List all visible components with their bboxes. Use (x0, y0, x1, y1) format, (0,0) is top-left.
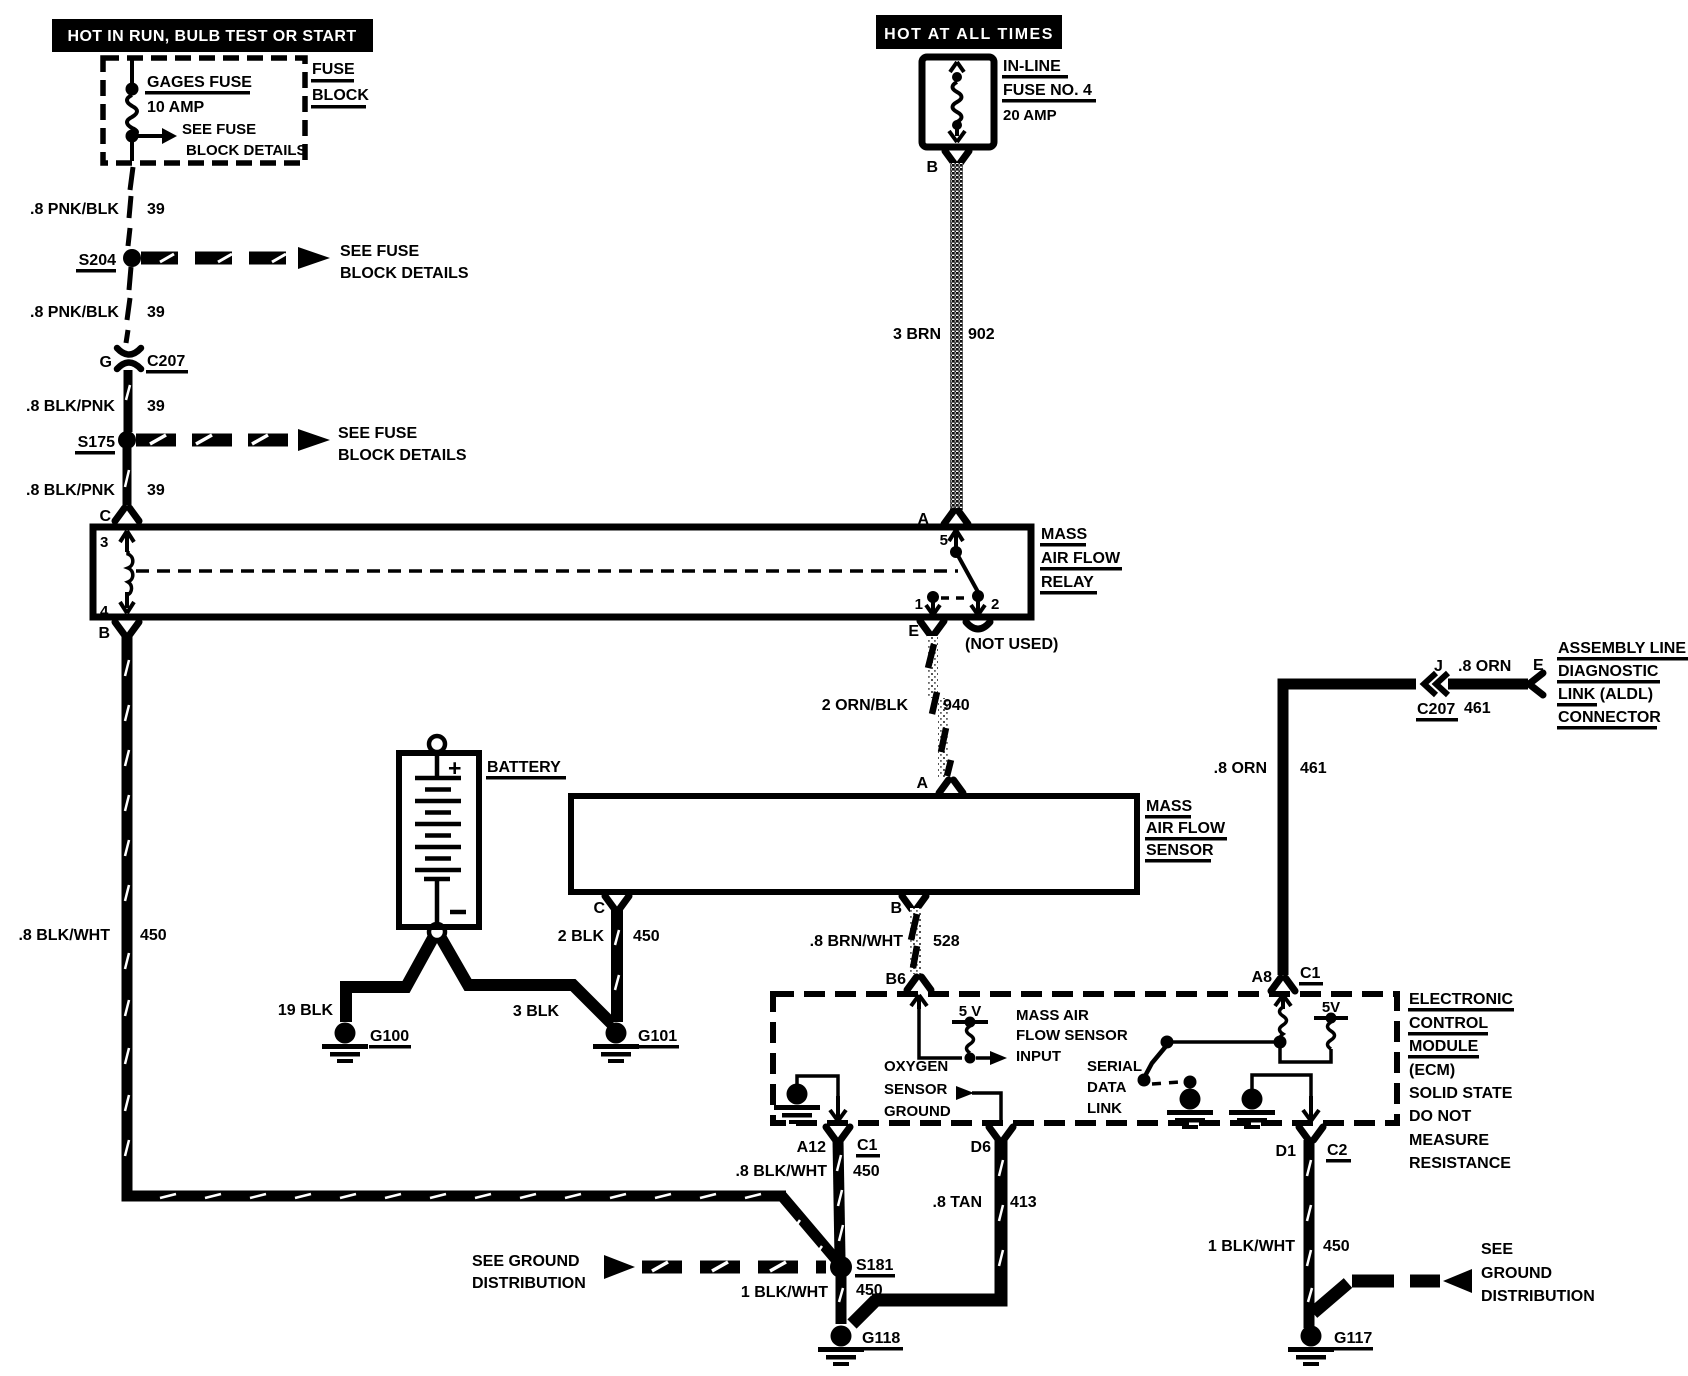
label MASS AIR FLOW SENSOR INPUT (1016, 1007, 1128, 1065)
svg-text:INPUT: INPUT (1016, 1048, 1061, 1065)
svg-text:19 BLK: 19 BLK (278, 1002, 334, 1019)
arrow MAF sensor input (976, 1056, 992, 1060)
svg-text:D1: D1 (1276, 1143, 1297, 1160)
svg-text:RESISTANCE: RESISTANCE (1409, 1155, 1511, 1172)
fuse block dashed box (103, 58, 305, 163)
svg-text:.8 TAN: .8 TAN (933, 1194, 982, 1211)
svg-text:C2: C2 (1327, 1142, 1348, 1159)
relay pin A (917, 511, 968, 528)
svg-text:LINK (ALDL): LINK (ALDL) (1558, 686, 1653, 703)
svg-text:A12: A12 (797, 1139, 826, 1156)
svg-text:BLOCK DETAILS: BLOCK DETAILS (340, 265, 469, 282)
svg-text:G118: G118 (862, 1330, 900, 1347)
svg-text:S204: S204 (79, 252, 116, 269)
resistor below A8 (1274, 995, 1292, 1049)
svg-text:39: 39 (147, 304, 165, 321)
svg-text:3 BLK: 3 BLK (513, 1003, 560, 1020)
wire fuse to S204 (128, 167, 133, 246)
svg-text:.8 BLK/WHT: .8 BLK/WHT (18, 927, 110, 944)
ECM dashed box (773, 994, 1397, 1123)
svg-text:FUSE: FUSE (312, 61, 355, 78)
svg-text:ASSEMBLY LINE: ASSEMBLY LINE (1558, 640, 1686, 657)
sensor pin B (890, 896, 926, 917)
svg-text:HOT AT ALL TIMES: HOT AT ALL TIMES (884, 26, 1054, 43)
svg-text:A: A (917, 511, 929, 528)
ground G100 (322, 1023, 411, 1064)
gages fuse F1 (126, 83, 139, 162)
svg-text:SEE GROUND: SEE GROUND (472, 1253, 580, 1270)
svg-text:BLOCK DETAILS: BLOCK DETAILS (186, 142, 307, 159)
label SERIAL DATA LINK (1087, 1058, 1142, 1117)
svg-text:1: 1 (915, 596, 923, 613)
svg-text:LINK: LINK (1087, 1100, 1122, 1117)
svg-text:20 AMP: 20 AMP (1003, 107, 1057, 124)
wire C207 to S175 (124, 370, 133, 432)
wire 1 BLK/WHT 450 from D1 to G117 (1208, 1140, 1350, 1328)
svg-text:GROUND: GROUND (1481, 1265, 1552, 1282)
svg-text:G101: G101 (638, 1028, 677, 1045)
arrow to see fuse block details (137, 121, 307, 159)
svg-text:DIAGNOSTIC: DIAGNOSTIC (1558, 663, 1659, 680)
svg-text:461: 461 (1464, 700, 1491, 717)
in-line fuse box (922, 57, 994, 147)
svg-text:A: A (916, 775, 928, 792)
svg-text:FUSE NO. 4: FUSE NO. 4 (1003, 82, 1092, 99)
svg-text:G100: G100 (370, 1028, 409, 1045)
svg-text:SEE FUSE: SEE FUSE (338, 425, 417, 442)
mass air flow sensor box (571, 796, 1137, 892)
sensor pin A (916, 775, 963, 793)
wire into fuse block (130, 60, 134, 85)
relay pin 3 (100, 531, 134, 552)
wire horizontal run to S181 (122, 1194, 838, 1262)
ground G118 (818, 1326, 903, 1367)
svg-text:.8 BLK/WHT: .8 BLK/WHT (735, 1163, 827, 1180)
wire .8 BRN/WHT 528 from sensor B to ECM B6 (810, 908, 960, 974)
svg-text:(ECM): (ECM) (1409, 1062, 1455, 1079)
ALDL horizontal wire J to E (1283, 657, 1544, 722)
svg-text:39: 39 (147, 201, 165, 218)
svg-text:BLOCK: BLOCK (312, 87, 369, 104)
svg-text:DO NOT: DO NOT (1409, 1108, 1471, 1125)
resistor 5V right (1280, 999, 1348, 1062)
svg-text:.8 BLK/PNK: .8 BLK/PNK (26, 482, 115, 499)
arrow oxygen sensor ground to D6 (956, 1086, 974, 1100)
wire S204 to C207 (126, 267, 131, 343)
svg-text:2 BLK: 2 BLK (558, 928, 605, 945)
svg-text:1 BLK/WHT: 1 BLK/WHT (1208, 1238, 1295, 1255)
label MASS AIR FLOW RELAY (1040, 526, 1122, 595)
svg-text:SENSOR: SENSOR (1146, 842, 1214, 859)
dashed arrow S175 to fuse block details (136, 425, 467, 464)
connector B below in-line fuse (926, 151, 969, 176)
relay internal dashed line (136, 569, 958, 573)
svg-text:39: 39 (147, 482, 165, 499)
see ground distribution right arrow (1313, 1241, 1595, 1313)
svg-text:RELAY: RELAY (1041, 574, 1094, 591)
relay switch lever (956, 552, 978, 592)
svg-text:461: 461 (1300, 760, 1327, 777)
svg-text:.8 BRN/WHT: .8 BRN/WHT (810, 933, 904, 950)
svg-text:4: 4 (100, 603, 109, 620)
svg-text:450: 450 (140, 927, 167, 944)
svg-text:DISTRIBUTION: DISTRIBUTION (1481, 1288, 1595, 1305)
svg-text:528: 528 (933, 933, 960, 950)
svg-text:C: C (99, 508, 111, 525)
dashed arrow S204 to fuse block details (141, 243, 469, 282)
banner HOT IN RUN, BULB TEST OR START (52, 19, 373, 52)
ECM internal ground right (1229, 1075, 1319, 1129)
wire .8 BLK/WHT 450 left vertical from relay B (18, 622, 300, 1196)
svg-text:MASS: MASS (1146, 798, 1193, 815)
svg-text:(NOT USED): (NOT USED) (965, 636, 1058, 653)
svg-text:39: 39 (147, 398, 165, 415)
svg-text:S175: S175 (78, 434, 115, 451)
svg-text:D6: D6 (971, 1139, 992, 1156)
svg-text:10 AMP: 10 AMP (147, 99, 205, 116)
wire A12 to S181 (735, 1140, 879, 1258)
svg-text:BLOCK DETAILS: BLOCK DETAILS (338, 447, 467, 464)
dashed link pin1 to pin2 (941, 596, 968, 600)
svg-text:G117: G117 (1334, 1330, 1372, 1347)
svg-text:OXYGEN: OXYGEN (884, 1058, 948, 1075)
relay coil (127, 551, 133, 596)
svg-text:AIR FLOW: AIR FLOW (1041, 550, 1121, 567)
svg-text:A8: A8 (1252, 969, 1273, 986)
svg-text:FLOW SENSOR: FLOW SENSOR (1016, 1027, 1128, 1044)
label GAGES FUSE 10 AMP (145, 74, 252, 116)
wire 3 BLK battery to G101 (441, 938, 612, 1024)
svg-text:2 ORN/BLK: 2 ORN/BLK (822, 697, 909, 714)
label OXYGEN SENSOR GROUND (884, 1058, 951, 1120)
svg-text:B: B (926, 159, 938, 176)
svg-text:SEE FUSE: SEE FUSE (182, 121, 256, 138)
ECM pin A8 (1252, 965, 1323, 991)
relay pin 5 (940, 530, 963, 558)
svg-text:MEASURE: MEASURE (1409, 1132, 1489, 1149)
not used connector (965, 622, 1058, 653)
resistor 5V MAF (952, 1003, 988, 1064)
label IN-LINE FUSE NO. 4 20 AMP (1002, 58, 1096, 124)
ground G117 (1288, 1326, 1373, 1367)
svg-text:GAGES FUSE: GAGES FUSE (147, 74, 252, 91)
wire 2 ORN/BLK 940 from relay E to sensor A (822, 636, 970, 778)
wire serial junction (1173, 1040, 1274, 1044)
svg-text:C1: C1 (857, 1137, 878, 1154)
sensor pin C (593, 896, 629, 917)
svg-text:902: 902 (968, 326, 995, 343)
svg-text:450: 450 (853, 1163, 880, 1180)
label MASS AIR FLOW SENSOR (1145, 798, 1227, 863)
wire S181 to G118 (836, 1275, 847, 1324)
svg-text:G: G (100, 354, 112, 371)
svg-text:C1: C1 (1300, 965, 1321, 982)
label BATTERY (486, 759, 566, 780)
svg-text:3: 3 (100, 534, 108, 551)
ECM pin D6 (971, 1127, 1013, 1156)
label FUSE BLOCK (311, 61, 369, 109)
svg-text:ELECTRONIC: ELECTRONIC (1409, 991, 1513, 1008)
svg-text:DATA: DATA (1087, 1079, 1127, 1096)
svg-text:B6: B6 (886, 971, 907, 988)
svg-text:3 BRN: 3 BRN (893, 326, 941, 343)
svg-text:.8 BLK/PNK: .8 BLK/PNK (26, 398, 115, 415)
svg-text:940: 940 (943, 697, 970, 714)
svg-text:J: J (1434, 658, 1443, 675)
svg-text:BATTERY: BATTERY (487, 759, 561, 776)
svg-text:2: 2 (991, 596, 999, 613)
svg-text:GROUND: GROUND (884, 1103, 951, 1120)
relay pin 4 (100, 592, 134, 620)
svg-text:5: 5 (940, 532, 948, 549)
connector C207 (G) (100, 348, 188, 374)
svg-text:SERIAL: SERIAL (1087, 1058, 1142, 1075)
svg-text:MASS: MASS (1041, 526, 1088, 543)
svg-text:IN-LINE: IN-LINE (1003, 58, 1061, 75)
svg-text:1 BLK/WHT: 1 BLK/WHT (741, 1284, 828, 1301)
svg-text:450: 450 (1323, 1238, 1350, 1255)
ECM pin D1 (1276, 1127, 1351, 1163)
svg-text:413: 413 (1010, 1194, 1037, 1211)
ECM internal ground left (774, 1076, 846, 1124)
svg-text:MODULE: MODULE (1409, 1038, 1479, 1055)
svg-text:.8 ORN: .8 ORN (1214, 760, 1267, 777)
pin C of relay (99, 508, 139, 525)
serial data link switch (1138, 1036, 1197, 1089)
ground G101 (593, 1023, 679, 1064)
wire B6 to MAF input node (919, 1007, 962, 1058)
svg-text:SEE: SEE (1481, 1241, 1513, 1258)
splice S175 (75, 431, 136, 455)
svg-text:AIR FLOW: AIR FLOW (1146, 820, 1226, 837)
svg-text:C207: C207 (1417, 701, 1455, 718)
svg-text:C207: C207 (147, 353, 185, 370)
wire 3 BRN 902 to relay pin A (893, 163, 995, 510)
svg-text:DISTRIBUTION: DISTRIBUTION (472, 1275, 586, 1292)
svg-text:E: E (908, 623, 919, 640)
svg-text:.8 ORN: .8 ORN (1458, 658, 1511, 675)
splice S181 (830, 1256, 895, 1299)
wire 19 BLK battery to G100 (278, 938, 433, 1022)
wire .8 TAN 413 from D6 to G118 (852, 1139, 1037, 1324)
svg-text:.8 PNK/BLK: .8 PNK/BLK (30, 201, 119, 218)
in-line fuse element (949, 62, 965, 142)
ECM pin B6 (886, 971, 931, 1009)
svg-text:C: C (593, 900, 605, 917)
relay box (mass air flow relay) (93, 527, 1031, 617)
svg-text:SOLID STATE: SOLID STATE (1409, 1085, 1513, 1102)
wire 2 BLK 450 to G101 (558, 908, 660, 1022)
battery (399, 736, 479, 940)
svg-text:.8 PNK/BLK: .8 PNK/BLK (30, 304, 119, 321)
wire .8 ORN 461 vertical to ECM A8 (1214, 684, 1327, 975)
see ground distribution left arrow (472, 1253, 828, 1301)
wire S175 to relay pin C (123, 448, 132, 505)
relay pin E connector (908, 621, 944, 640)
ECM internal ground middle (1167, 1089, 1213, 1130)
label electronic control module (1408, 991, 1514, 1172)
banner HOT AT ALL TIMES (876, 15, 1062, 49)
svg-text:450: 450 (633, 928, 660, 945)
svg-text:MASS AIR: MASS AIR (1016, 1007, 1089, 1024)
svg-text:B: B (98, 625, 110, 642)
relay pin 1 (915, 591, 940, 615)
splice S204 (76, 249, 141, 273)
svg-text:B: B (890, 900, 902, 917)
svg-text:S181: S181 (856, 1257, 893, 1274)
svg-text:SEE FUSE: SEE FUSE (340, 243, 419, 260)
ECM pin A12 (797, 1127, 880, 1158)
svg-text:HOT IN RUN, BULB TEST OR START: HOT IN RUN, BULB TEST OR START (67, 28, 356, 45)
relay pin 2 (971, 590, 999, 615)
label assembly line diagnostic link connector (1557, 640, 1688, 730)
svg-text:CONNECTOR: CONNECTOR (1558, 709, 1661, 726)
svg-text:SENSOR: SENSOR (884, 1081, 948, 1098)
svg-text:E: E (1533, 657, 1544, 674)
svg-text:CONTROL: CONTROL (1409, 1015, 1488, 1032)
